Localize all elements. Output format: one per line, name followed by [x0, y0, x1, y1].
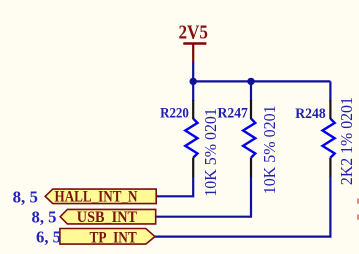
svg-text:10K 5% 0201: 10K 5% 0201 [260, 105, 279, 194]
wire: rail to R220 pin 1 [192, 81, 194, 101]
svg-text:TP_INT: TP_INT [90, 229, 138, 246]
wire: rail to R247 pin 1 [250, 81, 252, 101]
svg-text:HALL_INT_N: HALL_INT_N [55, 189, 138, 206]
wire: R220 pin 2 down and left to HALL_INT_N port [156, 177, 193, 196]
wire: rail corner down to R248 pin 1 [329, 81, 331, 101]
power port 2V5 bar symbol [183, 44, 206, 63]
resistor R220 body [185, 119, 197, 158]
pin 1 of R248 [329, 100, 331, 119]
svg-text:USB_INT: USB_INT [77, 209, 138, 226]
pin 1 of R220 [192, 100, 194, 119]
svg-text:2K2 1% 0201: 2K2 1% 0201 [337, 97, 356, 185]
wire: power stub down to rail [192, 62, 194, 83]
svg-text:2V5: 2V5 [179, 23, 209, 44]
junction node at R220 column [190, 78, 197, 85]
wire: top rail [193, 80, 330, 82]
wire: R248 pin 2 down and left to TP_INT port [155, 177, 331, 237]
svg-text:R220: R220 [160, 106, 189, 122]
svg-text:8, 5: 8, 5 [13, 187, 38, 206]
port USB_INT [60, 209, 156, 226]
junction node at R247 column [247, 78, 254, 85]
port HALL_INT_N [45, 189, 156, 206]
svg-text:R247: R247 [218, 106, 249, 122]
power port 2V5 label [179, 23, 209, 44]
pin 2 of R220 [192, 158, 194, 177]
svg-text:6, 5: 6, 5 [36, 227, 61, 246]
pin 2 of R247 [250, 158, 252, 177]
pin 2 of R248 [329, 158, 331, 177]
resistor R248 body [323, 119, 335, 158]
clipped red text fragment at right edge (lower) [357, 215, 359, 220]
wire: R247 pin 2 down and left to USB_INT port [156, 177, 251, 217]
port TP_INT [60, 229, 155, 247]
clipped red text fragment at right edge (upper) [357, 199, 359, 204]
pin 1 of R247 [250, 100, 252, 119]
svg-text:8, 5: 8, 5 [32, 208, 57, 227]
resistor R247 body [243, 119, 255, 158]
svg-text:R248: R248 [295, 106, 326, 122]
